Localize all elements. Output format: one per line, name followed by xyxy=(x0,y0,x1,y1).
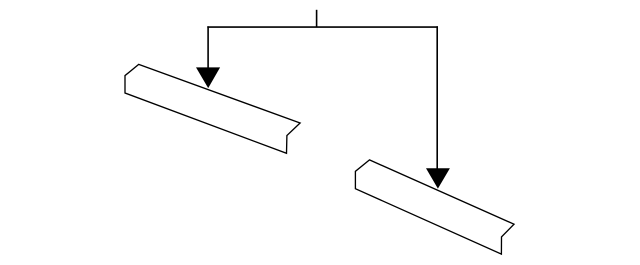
wire: horizontal branch xyxy=(207,26,438,28)
wire: right vertical drop xyxy=(436,26,438,172)
arrowhead: right connector xyxy=(426,168,450,188)
wire: left vertical drop xyxy=(207,26,209,72)
shape: right angle bar xyxy=(355,160,514,254)
arrowhead: left connector xyxy=(196,67,220,88)
wire: top stub xyxy=(316,10,318,27)
shape: left angle bar xyxy=(125,64,300,153)
